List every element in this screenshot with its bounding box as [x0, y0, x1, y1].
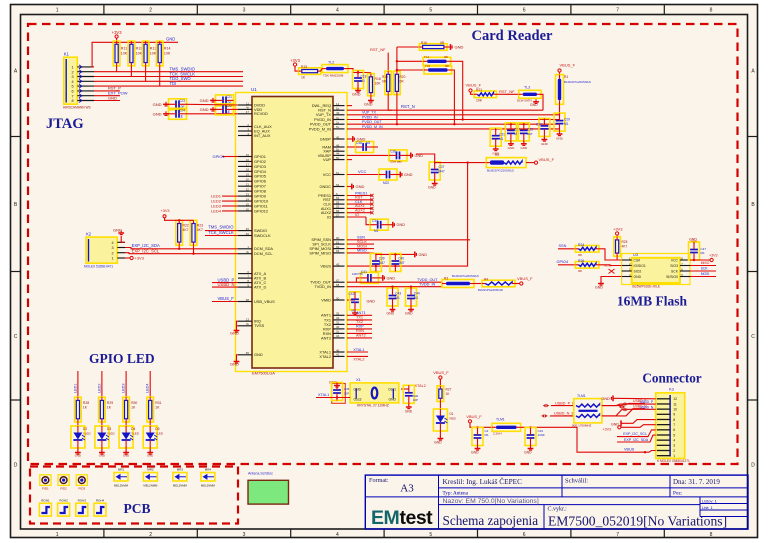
svg-text:10P: 10P: [344, 392, 349, 396]
svg-text:JTAG: JTAG: [46, 116, 84, 132]
wire PVDD_M_IN row: [347, 128, 560, 130]
svg-text:GPIO12: GPIO12: [254, 208, 268, 213]
capacitor C45: [332, 384, 346, 404]
diode D3 LED: [95, 426, 109, 448]
connector K2: [86, 237, 117, 263]
svg-text:ROH1: ROH1: [41, 499, 50, 503]
svg-text:61: 61: [336, 240, 340, 244]
ground C39 C40: [414, 252, 416, 258]
svg-text:M1: M1: [361, 79, 366, 83]
wire R27 to D1: [439, 402, 441, 410]
capacitor bank C33: [523, 124, 525, 125]
wire TDO_SWO: [94, 80, 243, 82]
power +3V3 K2 pin1: [125, 257, 130, 259]
fiducial FID1: [40, 475, 51, 486]
svg-text:3: 3: [71, 75, 73, 79]
ground C30: [543, 137, 545, 140]
wire VCC flash: [690, 259, 710, 261]
wire TLM1 to C16 and K3: [521, 427, 645, 452]
ferrite bead R1: [556, 75, 564, 105]
wire VUP row: [347, 159, 352, 161]
svg-text:XTAL2: XTAL2: [353, 358, 364, 362]
svg-text:GND: GND: [404, 173, 413, 177]
svg-text:SCK: SCK: [671, 269, 679, 273]
ground D2: [77, 450, 79, 453]
fiducial FID2: [58, 475, 69, 486]
svg-text:25: 25: [246, 202, 250, 206]
svg-text:MR4: MR4: [205, 468, 212, 472]
svg-text:USBD_N_E: USBD_N_E: [554, 412, 575, 416]
svg-text:1K: 1K: [155, 406, 160, 410]
svg-text:R14: R14: [164, 47, 171, 51]
svg-text:13: 13: [246, 318, 250, 322]
svg-text:1: 1: [56, 532, 59, 538]
resistor R24: [575, 246, 599, 253]
resistor R11: [113, 41, 120, 66]
svg-text:GND: GND: [200, 98, 209, 103]
power VBUS_F right: [526, 162, 534, 164]
wire R1 down through rows: [559, 104, 561, 116]
svg-text:GND: GND: [520, 146, 528, 150]
svg-text:ROH4: ROH4: [96, 499, 105, 503]
wire TL3 to RST_N row: [541, 94, 543, 110]
wire R23 to SCL: [193, 245, 195, 253]
svg-text:GND: GND: [405, 410, 413, 414]
wire TDI: [94, 85, 243, 87]
svg-text:9: 9: [673, 413, 675, 417]
resistor R13: [142, 41, 149, 66]
svg-text:LED1: LED1: [73, 384, 77, 394]
ground C29: [559, 132, 561, 135]
svg-text:50: 50: [336, 156, 340, 160]
resistor R25: [614, 237, 621, 257]
svg-text:GND: GND: [153, 112, 162, 117]
svg-text:35: 35: [336, 312, 340, 316]
svg-text:R2: R2: [495, 153, 499, 157]
svg-text:0R: 0R: [440, 41, 445, 45]
svg-text:GND: GND: [99, 454, 105, 458]
resistor R15: [299, 68, 321, 75]
svg-text:45: 45: [246, 227, 250, 231]
wire SPI_SCLK row: [347, 243, 374, 245]
wire SSN to R24: [558, 248, 575, 250]
svg-text:LED4: LED4: [211, 208, 222, 213]
capacitor C17: [477, 427, 479, 429]
svg-text:VBUS_F: VBUS_F: [517, 276, 533, 281]
svg-text:51: 51: [336, 171, 340, 175]
svg-text:R22: R22: [183, 224, 189, 228]
svg-text:R21: R21: [476, 88, 482, 92]
svg-text:VCC: VCC: [358, 169, 367, 174]
wire choke to pin10 USBD_N: [602, 409, 645, 416]
svg-text:GND: GND: [230, 362, 239, 367]
svg-text:YLED: YLED: [155, 432, 164, 436]
svg-text:R24: R24: [578, 243, 584, 247]
svg-text:TVDD_IN: TVDD_IN: [419, 283, 436, 287]
capacitor C34 on IO: [366, 217, 370, 225]
wire TVDD_OUT row: [347, 282, 442, 283]
svg-text:R1: R1: [564, 75, 568, 79]
svg-text:8: 8: [710, 8, 713, 14]
svg-text:R29: R29: [107, 401, 113, 405]
svg-text:R18: R18: [375, 77, 381, 81]
svg-text:USBD_N: USBD_N: [218, 282, 235, 287]
svg-text:10K: 10K: [476, 99, 483, 103]
wire SPIM_MISO row: [347, 252, 374, 254]
svg-text:GND: GND: [397, 223, 406, 227]
svg-text:GND: GND: [352, 93, 361, 97]
svg-text:C18: C18: [361, 75, 367, 79]
PCB dashed region box: [30, 467, 238, 524]
resistor R29: [99, 397, 106, 422]
svg-text:GND: GND: [530, 103, 538, 107]
svg-text:C40: C40: [398, 257, 404, 261]
svg-text:TVDD_IN: TVDD_IN: [314, 284, 331, 289]
svg-text:TX2: TX2: [356, 320, 363, 324]
wire LED1 net down: [77, 371, 79, 397]
resistor R19: [387, 53, 389, 72]
svg-text:SIO3: SIO3: [670, 264, 678, 268]
resistor R26: [575, 262, 599, 269]
svg-text:19: 19: [246, 173, 250, 177]
ground D4: [125, 450, 127, 453]
svg-text:C33: C33: [527, 127, 533, 131]
svg-text:2: 2: [149, 532, 152, 538]
svg-text:IS25WP016D-JKLE: IS25WP016D-JKLE: [632, 285, 660, 289]
svg-text:VCC: VCC: [323, 172, 331, 177]
svg-text:XTAL1: XTAL1: [353, 348, 364, 352]
svg-text:Schválil:: Schválil:: [565, 478, 588, 485]
svg-text:57: 57: [336, 213, 340, 217]
capacitor C22: [216, 104, 234, 115]
wire R29 to D3: [101, 422, 103, 426]
capacitor C42 on VMID: [347, 299, 355, 301]
svg-text:2: 2: [149, 8, 152, 14]
resistor R30: [123, 397, 130, 422]
resistor R4: [474, 283, 482, 285]
svg-text:C37: C37: [439, 165, 445, 169]
svg-text:C32: C32: [514, 127, 520, 131]
svg-text:VBUS_F: VBUS_F: [539, 157, 555, 162]
svg-text:C29: C29: [564, 118, 570, 122]
svg-text:ANT2: ANT2: [321, 335, 331, 340]
svg-text:VUP: VUP: [323, 157, 331, 162]
svg-text:RED: RED: [450, 417, 457, 421]
svg-text:GND: GND: [367, 300, 376, 304]
svg-text:VUP_TX: VUP_TX: [362, 111, 377, 115]
inductor TLM1: [492, 423, 521, 431]
svg-text:2: 2: [71, 70, 73, 74]
svg-text:DLW 5ATN: DLW 5ATN: [517, 98, 532, 102]
wire DWL_REQ stub: [347, 105, 352, 107]
capacitor C46: [403, 385, 414, 403]
svg-text:BLM21PG220SN1D: BLM21PG220SN1D: [487, 169, 515, 173]
svg-text:Osc3: Osc3: [354, 398, 362, 402]
capacitor C23: [169, 99, 187, 110]
svg-text:26: 26: [246, 207, 250, 211]
svg-text:XTAL2: XTAL2: [319, 354, 331, 359]
wire TVDD_IN row: [347, 284, 442, 287]
svg-text:M: M: [514, 132, 517, 136]
svg-text:30: 30: [336, 296, 340, 300]
capacitor C21: [216, 95, 234, 106]
svg-text:3: 3: [243, 532, 246, 538]
diode D1 LED: [433, 409, 447, 431]
svg-text:CS#: CS#: [634, 258, 641, 262]
svg-text:BLM21PG220SN1D: BLM21PG220SN1D: [564, 80, 592, 84]
capacitor C38 on RAM: [347, 146, 356, 148]
wire RXP: [347, 328, 372, 330]
svg-text:MEL2NMM: MEL2NMM: [201, 484, 216, 488]
svg-text:FID2: FID2: [60, 487, 67, 491]
wire R22 to SDA: [178, 245, 180, 249]
inductor TL4: [397, 60, 423, 62]
svg-text:VBUS_F: VBUS_F: [560, 63, 576, 68]
svg-text:MEL2NMM: MEL2NMM: [143, 484, 158, 488]
wire PVDD_IN row: [347, 119, 560, 121]
svg-text:4: 4: [71, 80, 73, 84]
wire R24 to flash CS: [599, 249, 622, 260]
title block lines: [438, 475, 440, 497]
power +3V3 flash VCC: [710, 258, 713, 261]
wire USBD_N_E: [550, 415, 574, 417]
wire CLK: [347, 203, 372, 205]
svg-text:ROH3: ROH3: [78, 499, 87, 503]
svg-text:Format:: Format:: [369, 477, 389, 484]
svg-text:SI/SIO0: SI/SIO0: [666, 275, 678, 279]
svg-text:24: 24: [246, 197, 250, 201]
svg-text:MOSI: MOSI: [701, 272, 710, 276]
wire R19 to RST_N row: [388, 95, 392, 111]
wire LED3 net down: [125, 371, 127, 397]
svg-text:65: 65: [246, 351, 250, 355]
wire C23 to DVDD: [187, 103, 239, 106]
svg-text:22: 22: [246, 187, 250, 191]
svg-text:10K: 10K: [164, 51, 171, 55]
svg-text:VMID: VMID: [321, 297, 331, 302]
svg-text:RXN: RXN: [356, 329, 364, 333]
wire +3V3 rail to K1 pin1: [92, 42, 117, 67]
wire R26 to flash SIO1: [599, 264, 622, 267]
capacitor bank C31: [495, 129, 497, 131]
svg-text:GND: GND: [75, 454, 81, 458]
svg-text:17: 17: [246, 163, 250, 167]
svg-text:GND: GND: [166, 37, 175, 42]
capacitor C36 on VBUSP: [347, 154, 389, 156]
wire TX2: [347, 323, 372, 325]
wire R25 to CS: [617, 256, 622, 260]
svg-text:C38: C38: [356, 141, 362, 145]
svg-text:Connector: Connector: [642, 371, 701, 386]
svg-text:20: 20: [246, 178, 250, 182]
crossing wires flash: [609, 269, 615, 274]
svg-text:RCVDD: RCVDD: [254, 111, 268, 116]
crystal X1 block: [350, 383, 399, 403]
svg-text:Schema zapojenia: Schema zapojenia: [443, 513, 539, 528]
wire TCK_SWCLK to IC: [205, 235, 238, 237]
svg-text:C31: C31: [499, 133, 505, 137]
svg-text:R15: R15: [301, 65, 307, 69]
svg-text:4: 4: [111, 241, 113, 245]
svg-text:M1: M1: [395, 296, 400, 300]
svg-text:EM: EM: [371, 507, 399, 529]
svg-text:23: 23: [246, 192, 250, 196]
svg-text:VBUS: VBUS: [320, 264, 331, 269]
wire VBUS_F to USB_VBUS: [212, 301, 238, 303]
svg-text:RST_N: RST_N: [401, 104, 415, 109]
svg-text:LED2: LED2: [97, 384, 101, 394]
svg-text:8: 8: [71, 99, 73, 103]
svg-text:TMS_SWDIO: TMS_SWDIO: [208, 225, 234, 230]
resistor R21: [474, 91, 496, 98]
svg-text:5: 5: [429, 532, 432, 538]
svg-text:BAT: BAT: [527, 132, 533, 136]
svg-text:15: 15: [246, 153, 250, 157]
svg-text:GND: GND: [455, 45, 464, 50]
svg-text:VBUS: VBUS: [624, 447, 635, 451]
svg-text:C24: C24: [179, 108, 185, 112]
svg-text:11: 11: [246, 101, 249, 105]
diode D4 LED: [119, 426, 133, 448]
wire VBUS row to vertical: [347, 163, 468, 267]
svg-text:SWDCLK: SWDCLK: [254, 233, 271, 238]
svg-text:+3V3: +3V3: [603, 427, 612, 431]
svg-text:C42: C42: [349, 292, 355, 296]
svg-text:C: C: [751, 334, 755, 340]
svg-text:MR3: MR3: [177, 468, 184, 472]
svg-text:PVDD_IN: PVDD_IN: [362, 115, 378, 119]
svg-text:C: C: [14, 334, 18, 340]
svg-text:BLM21PG220SN1D: BLM21PG220SN1D: [478, 288, 503, 292]
capacitor C30: [543, 120, 545, 122]
svg-text:C5w aau: C5w aau: [390, 160, 402, 164]
connector K3: [656, 393, 685, 459]
svg-text:VBUS_F: VBUS_F: [433, 370, 449, 375]
svg-text:XTAL1: XTAL1: [318, 393, 329, 397]
svg-text:GPIO4: GPIO4: [557, 260, 569, 264]
svg-text:RST_NF: RST_NF: [499, 89, 515, 94]
svg-text:MR2: MR2: [147, 468, 154, 472]
wire GND pin8: [94, 100, 120, 102]
svg-text:MEL2NMM: MEL2NMM: [173, 484, 188, 488]
svg-text:TLM1: TLM1: [577, 394, 586, 398]
svg-text:PCB: PCB: [124, 501, 151, 516]
svg-text:6: 6: [673, 428, 675, 432]
svg-text:GND: GND: [419, 253, 428, 257]
wire AUX1: [347, 207, 372, 209]
svg-text:ROH2: ROH2: [59, 499, 68, 503]
svg-text:YLED: YLED: [131, 432, 140, 436]
ground D3: [101, 450, 103, 453]
svg-text:List: 1: List: 1: [702, 505, 713, 510]
svg-text:D1: D1: [450, 412, 454, 416]
svg-text:1K: 1K: [131, 406, 136, 410]
wire SCK: [690, 270, 716, 272]
wire VUP_TX row: [347, 114, 560, 116]
wire XTAL1 stub: [347, 351, 368, 353]
svg-text:GND: GND: [113, 228, 122, 233]
svg-text:GND: GND: [230, 331, 239, 336]
svg-text:FID1: FID1: [42, 487, 49, 491]
svg-text:GND: GND: [541, 142, 549, 146]
svg-text:K1: K1: [64, 52, 70, 57]
svg-text:GND: GND: [147, 454, 153, 458]
ground C17: [477, 446, 479, 449]
svg-text:54: 54: [336, 183, 340, 187]
ground K2 pin4: [121, 236, 125, 242]
svg-text:8: 8: [673, 418, 675, 422]
svg-text:SIO2: SIO2: [634, 269, 642, 273]
wire PRES1: [347, 195, 372, 197]
svg-text:M1: M1: [366, 141, 371, 145]
svg-text:R3: R3: [444, 277, 448, 281]
svg-text:TDI: TDI: [170, 81, 177, 86]
ground GNDP: [347, 138, 353, 140]
wire ANT1: [347, 314, 372, 316]
connector K1 JTAG header: [64, 57, 78, 104]
svg-text:GND: GND: [387, 312, 395, 316]
svg-text:R27: R27: [446, 388, 452, 392]
wire RXN: [347, 332, 372, 334]
resistor R27: [437, 386, 444, 402]
power +3V3 JTAG: [115, 35, 118, 38]
svg-text:IO: IO: [355, 213, 359, 217]
svg-text:GND: GND: [434, 441, 442, 445]
svg-text:36: 36: [336, 325, 340, 329]
svg-text:6: 6: [523, 532, 526, 538]
svg-text:R28: R28: [83, 401, 89, 405]
capacitor C24: [169, 108, 187, 119]
capacitor C41 on TVDD_OUT: [356, 278, 360, 282]
ferrite bead R2: [486, 158, 526, 168]
svg-text:SPIM_MISO: SPIM_MISO: [309, 250, 331, 255]
svg-text:C34: C34: [372, 219, 378, 223]
svg-text:+3V3: +3V3: [613, 227, 623, 232]
wire R20 down to PVDD_M_IN row: [396, 95, 398, 125]
svg-text:D5: D5: [155, 427, 159, 431]
svg-text:U3: U3: [633, 252, 639, 257]
svg-text:21: 21: [246, 183, 250, 187]
svg-text:4: 4: [673, 439, 675, 443]
svg-text:6: 6: [71, 90, 73, 94]
wire GPIO4 to R26: [558, 264, 575, 266]
inductor TL3: [519, 90, 541, 98]
wire SPIM_SSN row: [347, 239, 470, 241]
svg-text:D3: D3: [107, 427, 111, 431]
svg-text:GND: GND: [108, 95, 117, 100]
svg-text:TL5: TL5: [425, 64, 431, 68]
svg-text:1K: 1K: [107, 406, 112, 410]
svg-text:GPIO LED: GPIO LED: [89, 351, 155, 366]
svg-text:D2: D2: [83, 427, 87, 431]
svg-text:GPIO1: GPIO1: [213, 154, 226, 159]
svg-text:SSN: SSN: [559, 244, 567, 248]
svg-text:C45: C45: [344, 387, 350, 391]
wire RST: [347, 199, 372, 201]
wire choke to pin11 USBD_P: [602, 404, 656, 406]
svg-text:63: 63: [336, 249, 340, 253]
svg-text:LED4: LED4: [146, 384, 150, 394]
svg-text:C21: C21: [226, 95, 232, 99]
svg-text:M1: M1: [564, 122, 569, 126]
svg-text:SCK: SCK: [701, 267, 709, 271]
svg-text:D: D: [14, 463, 18, 469]
svg-text:Listov: 1: Listov: 1: [702, 499, 718, 504]
svg-text:+3V3: +3V3: [161, 209, 170, 213]
svg-text:Osc1: Osc1: [388, 388, 396, 392]
svg-text:58: 58: [246, 298, 250, 302]
svg-text:USBD_P_E: USBD_P_E: [555, 401, 575, 405]
